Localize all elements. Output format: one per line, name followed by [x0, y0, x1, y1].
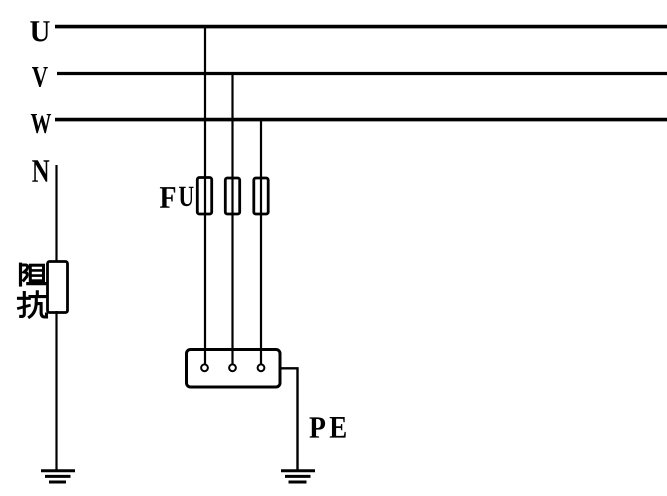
wire PE stub — [280, 368, 298, 470]
bus line V — [57, 72, 667, 75]
bus line U — [55, 25, 667, 29]
label FU — [160, 187, 175, 208]
bus line W — [55, 118, 667, 122]
label W — [31, 114, 51, 133]
ground symbol right (PE earth) — [281, 471, 315, 482]
label 阻 (impedance char 1) — [21, 264, 47, 285]
wire W phase drop — [260, 118, 262, 365]
label U — [30, 21, 49, 41]
label V — [32, 67, 48, 87]
fuse FU phase W — [254, 178, 268, 214]
terminal node V — [229, 364, 236, 371]
impedance component box — [48, 262, 68, 313]
wire V phase drop — [231, 72, 233, 365]
equipment box — [187, 350, 281, 388]
wire N lower segment — [55, 311, 57, 470]
wire U phase drop — [204, 25, 206, 365]
wire N upper segment — [55, 165, 57, 263]
label N — [32, 160, 49, 181]
fuse FU phase V — [225, 178, 239, 214]
label 抗 (impedance char 2) — [19, 292, 47, 317]
fuse FU phase U — [197, 178, 211, 215]
label PE — [310, 417, 326, 437]
terminal node U — [201, 364, 208, 371]
ground symbol left (N earth) — [41, 471, 75, 482]
terminal node W — [258, 364, 265, 371]
